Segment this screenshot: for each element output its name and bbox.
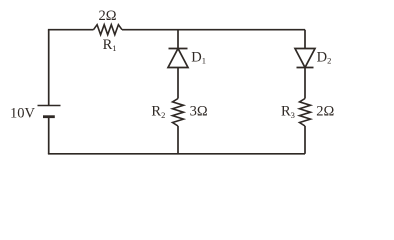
wire bottom (bottom-left corner to bottom-right corner)	[48, 153, 305, 155]
svg-text:R1: R1	[103, 37, 117, 53]
diode D1 cathode bar	[169, 48, 188, 50]
svg-text:D2: D2	[317, 50, 332, 66]
svg-text:R2: R2	[151, 104, 165, 120]
svg-text:2Ω: 2Ω	[316, 104, 334, 120]
wire node A to top-right corner	[178, 29, 305, 31]
wire D2 to R3	[304, 68, 306, 99]
wire middle branch top (node A down to D1)	[177, 30, 179, 49]
wire R3 to bottom-right corner	[304, 126, 306, 154]
wire R2 to bottom wire (node B)	[177, 126, 179, 154]
diode D2 triangle (points down)	[295, 49, 315, 68]
wire left side lower (battery to bottom-left corner)	[48, 117, 50, 154]
svg-text:D1: D1	[191, 50, 206, 66]
battery 10V long plate (+)	[38, 105, 61, 107]
wire right branch top (top-right corner down to D2)	[304, 30, 306, 49]
wire left side upper (corner down to battery)	[48, 30, 50, 105]
svg-text:R3: R3	[281, 104, 295, 120]
resistor R1	[94, 25, 123, 35]
svg-text:3Ω: 3Ω	[190, 103, 208, 119]
wire D1 to R2	[177, 68, 179, 99]
diode D1 triangle (points up)	[168, 49, 188, 68]
svg-text:2Ω: 2Ω	[99, 8, 117, 24]
battery 10V short plate (-)	[43, 115, 55, 118]
wire R1 to node A (top middle junction)	[122, 29, 178, 31]
resistor R2	[173, 99, 184, 127]
resistor R3	[300, 99, 311, 127]
wire top-left segment (top-left corner to R1)	[48, 29, 94, 31]
svg-text:10V: 10V	[10, 106, 36, 122]
diode D2 cathode bar	[297, 67, 314, 69]
